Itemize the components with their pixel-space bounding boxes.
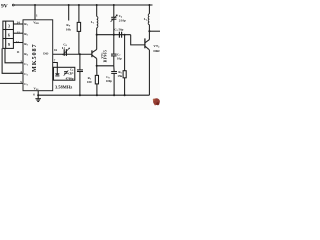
resistor R5 100 [95, 66, 98, 95]
svg-text:MK5087: MK5087 [31, 44, 38, 73]
capacitor C9 bypass on DO node [77, 54, 83, 95]
wire row R1 pin14 [13, 23, 23, 25]
svg-text:4700p: 4700p [66, 77, 74, 81]
svg-text:16: 16 [54, 48, 58, 52]
svg-text:100: 100 [87, 80, 92, 84]
svg-text:BF965: BF965 [104, 50, 108, 63]
svg-text:3: 3 [8, 24, 10, 29]
wire antenna output [149, 30, 160, 32]
wire pin7 to crystal [53, 63, 58, 68]
inductor L2 [148, 5, 149, 31]
svg-text:C5 56p: C5 56p [114, 27, 123, 32]
trimmer arrow on C8 [63, 48, 70, 55]
wire DO output line [53, 53, 92, 55]
capacitor C8 100p emitter bypass [111, 66, 117, 95]
svg-text:6: 6 [8, 33, 10, 38]
transistor VT2 [145, 31, 150, 95]
wire column C3 pin5 [0, 82, 23, 84]
svg-text:9V: 9V [1, 4, 8, 10]
junction dot tank/C4 [113, 34, 115, 36]
junction dots on 9V rail [34, 4, 151, 6]
junction dot tank node [96, 34, 98, 36]
ground rail [38, 94, 149, 96]
junction dots on ground rail [37, 94, 125, 96]
junction dot R6 top [124, 34, 126, 36]
svg-text:D667: D667 [153, 49, 160, 53]
svg-text:10p: 10p [117, 57, 122, 61]
svg-text:2/10p: 2/10p [119, 19, 126, 23]
trimmer capacitor C6 [64, 70, 69, 75]
IC pin labels R1-R4 [24, 22, 28, 56]
inductor L1 [97, 5, 98, 35]
wire to VT2 base [131, 35, 145, 45]
wire row R2 pin13 [13, 32, 23, 34]
crystal B 3.58MHz [55, 67, 59, 76]
svg-text:15k: 15k [117, 74, 122, 78]
transistor VT1 [92, 35, 97, 66]
wire stub from rail (RP wiper feed) [68, 5, 70, 21]
junction dot DO line / RP [79, 53, 81, 55]
resistor R6 15k [123, 35, 126, 95]
watermark logo [153, 98, 160, 105]
wire column C2 pin4 [2, 48, 23, 73]
junction dot VT1 emitter [96, 65, 98, 67]
wire pin6 Vss to ground [37, 91, 39, 96]
svg-text:3.58MHz: 3.58MHz [55, 84, 72, 89]
ground symbol [35, 95, 41, 101]
keypad matrix box [3, 21, 14, 48]
trimmer capacitor C4 [111, 5, 118, 35]
op IC U1 MK5087 box [23, 20, 53, 91]
pin numbers left of IC [16, 20, 23, 84]
wire emitter to C8 [97, 65, 114, 67]
junction dot VT2 collector [148, 30, 150, 32]
svg-text:10k: 10k [66, 28, 71, 32]
wire tank line [97, 34, 131, 36]
wire column C1 pin3 [5, 48, 23, 62]
svg-text:9: 9 [8, 42, 10, 47]
capacitor C8 series in DO line [64, 49, 66, 56]
capacitor C5 series 56p [119, 32, 121, 38]
resistor RP [77, 5, 80, 54]
crystal network box [54, 67, 75, 80]
wire pin1 Vdd drop [34, 5, 36, 20]
svg-text:100p: 100p [106, 79, 113, 83]
wire row R3 pin12 [13, 42, 23, 44]
IC pin labels C1-C3 [24, 62, 28, 87]
svg-text:DO: DO [43, 52, 48, 56]
capacitor C7 10p [111, 35, 117, 66]
wire 9V rail [14, 4, 152, 6]
svg-text:11: 11 [17, 50, 20, 54]
9V supply terminal [1, 4, 14, 10]
